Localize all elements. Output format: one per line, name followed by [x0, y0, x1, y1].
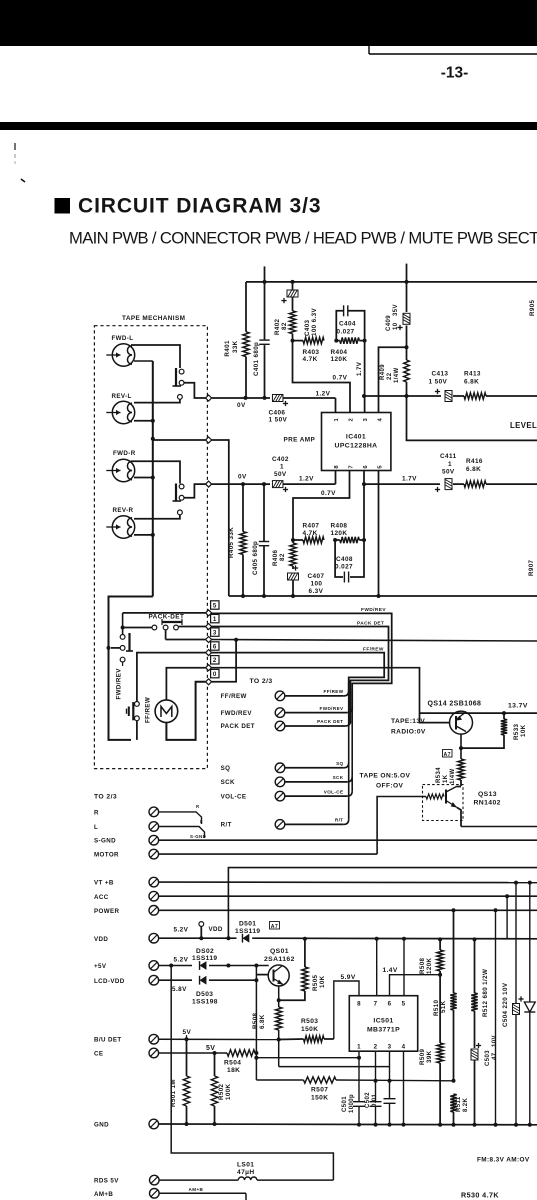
capacitor C403 100 6.3V (electrolytic) — [281, 282, 318, 336]
pin square 6 — [211, 642, 219, 651]
resistor R416 6.8K — [464, 458, 537, 487]
label FWD/REV (vertical) — [116, 668, 123, 700]
connector SQ — [221, 761, 349, 773]
svg-text:50V: 50V — [274, 471, 287, 478]
svg-text:150K: 150K — [301, 1026, 318, 1033]
svg-text:1: 1 — [357, 1044, 361, 1051]
svg-text:FWD-R: FWD-R — [113, 450, 136, 457]
wire node2 to QS14 base — [212, 668, 450, 723]
resistor R401 33K — [224, 282, 249, 398]
svg-text:R406: R406 — [272, 549, 279, 566]
connector VOL-CE — [221, 789, 353, 801]
svg-text:120K: 120K — [426, 957, 433, 974]
label PACK-DET — [149, 614, 185, 621]
svg-text:7: 7 — [349, 465, 355, 469]
svg-text:R/T: R/T — [335, 818, 344, 823]
margin specks — [15, 143, 25, 182]
svg-text:AM+B: AM+B — [94, 1191, 113, 1198]
resistor R413 6.8K — [464, 371, 537, 400]
svg-text:100 6.3V: 100 6.3V — [311, 308, 318, 336]
svg-text:100K: 100K — [225, 1083, 232, 1100]
resistor R510 51K — [433, 910, 457, 1083]
svg-text:R510: R510 — [433, 999, 440, 1016]
svg-text:FF/REW: FF/REW — [145, 697, 152, 723]
label TO 2/3 (left) — [94, 794, 117, 801]
svg-text:4: 4 — [378, 418, 384, 422]
svg-text:LEVEL: LEVEL — [510, 421, 537, 430]
svg-text:6: 6 — [363, 465, 369, 469]
connector FF/REW — [221, 689, 349, 701]
resistor R512 680 1/2W — [471, 939, 489, 1048]
wire 1.2V to pin8 — [299, 471, 336, 485]
wire node3 run — [166, 630, 206, 640]
svg-text:D503: D503 — [196, 991, 213, 998]
connector CE — [94, 1048, 227, 1058]
svg-text:VDD: VDD — [94, 936, 108, 943]
resistor R905 (off-page) — [529, 299, 536, 316]
connector +5V — [94, 957, 192, 971]
svg-text:5: 5 — [402, 1001, 406, 1008]
svg-text:5.8V: 5.8V — [172, 986, 187, 993]
svg-text:8: 8 — [334, 465, 340, 469]
svg-text:R507: R507 — [311, 1087, 328, 1094]
ic IC501 MB3771P — [349, 996, 417, 1051]
switch PACK-DET — [121, 619, 182, 630]
resistor R407 4.7K — [291, 523, 324, 544]
capacitor C411 1 50V (electrolytic) — [435, 453, 464, 492]
wire QS13 base from MOTOR line — [377, 797, 426, 855]
wire R508 to pin3 — [279, 1066, 390, 1068]
svg-text:R508: R508 — [419, 957, 426, 974]
svg-text:VT +B: VT +B — [94, 880, 114, 887]
svg-text:0.027: 0.027 — [337, 329, 355, 336]
svg-text:R413: R413 — [464, 371, 481, 378]
open test point 5.2V VDD — [174, 922, 223, 941]
capacitor C413 1 50V (electrolytic) — [407, 371, 465, 402]
svg-text:R401: R401 — [224, 340, 231, 357]
svg-text:1.2V: 1.2V — [316, 391, 331, 398]
svg-text:R408: R408 — [331, 523, 348, 530]
svg-text:13.7V: 13.7V — [508, 703, 528, 710]
wire 0V input line lower — [212, 474, 270, 487]
switch S1 (FWD-L/REV-L select) — [173, 368, 185, 399]
label 5V (B/U) — [183, 1029, 192, 1039]
resistor R507 150K — [304, 1077, 454, 1102]
pin square 5 — [211, 601, 219, 610]
pin square 3 — [211, 628, 219, 637]
svg-text:SCK: SCK — [333, 775, 344, 780]
svg-text:FF/REW: FF/REW — [323, 689, 343, 694]
svg-text:B/U DET: B/U DET — [94, 1037, 122, 1044]
svg-text:FF/REW: FF/REW — [363, 647, 384, 653]
wire node B to preamp ground — [212, 440, 229, 596]
svg-text:TAPE:13V: TAPE:13V — [391, 718, 425, 725]
svg-text:QS01: QS01 — [270, 948, 289, 955]
svg-text:6.3V: 6.3V — [309, 588, 324, 595]
wire FF/REW to bottom — [136, 721, 138, 740]
svg-text:FM:8.3V AM:OV: FM:8.3V AM:OV — [477, 1157, 530, 1164]
node C (dashed-edge node, right ch) — [206, 481, 212, 487]
svg-text:R403: R403 — [303, 349, 320, 356]
svg-text:OFF:OV: OFF:OV — [376, 783, 404, 790]
svg-text:0.7V: 0.7V — [333, 375, 348, 382]
resistor R534 1K 1/4W — [436, 759, 464, 786]
resistor R402 82 — [274, 297, 296, 341]
svg-text:5.2V: 5.2V — [174, 927, 189, 934]
wire 0V input line upper — [212, 396, 270, 409]
wire LEVEL line — [407, 396, 537, 440]
connector R/T — [221, 818, 349, 830]
svg-text:L: L — [94, 824, 98, 831]
wire head common vertical — [134, 361, 155, 597]
svg-text:GND: GND — [94, 1122, 109, 1129]
resistor R404 120K — [331, 337, 367, 363]
svg-text:6.8K: 6.8K — [464, 379, 479, 386]
svg-text:TO 2/3: TO 2/3 — [94, 794, 117, 801]
resistor R907 (off-page) — [528, 559, 535, 576]
wire node3 long run (FWD/REV bus) — [212, 638, 537, 642]
svg-text:R502: R502 — [218, 1083, 225, 1100]
second black divider band — [0, 122, 537, 130]
svg-text:3: 3 — [213, 629, 217, 636]
connector L — [94, 819, 205, 838]
dashed net spine (right edge of tape mech) — [208, 326, 210, 769]
svg-text:0: 0 — [213, 671, 217, 678]
svg-text:82: 82 — [279, 553, 286, 561]
node 0 — [206, 679, 212, 685]
capacitor C502 0.01 — [365, 1092, 382, 1124]
svg-text:POWER: POWER — [94, 908, 120, 915]
svg-text:RDS 5V: RDS 5V — [94, 1178, 119, 1185]
connector POWER — [94, 906, 537, 916]
svg-text:5: 5 — [213, 602, 217, 609]
node 5 — [206, 610, 212, 616]
svg-text:6.8K: 6.8K — [466, 466, 481, 473]
boxed label A7 (D501) — [270, 922, 280, 930]
svg-text:82: 82 — [281, 322, 288, 330]
resistor R501 1M — [170, 1039, 190, 1124]
svg-text:R534: R534 — [436, 767, 442, 783]
svg-text:SQ: SQ — [221, 765, 231, 772]
svg-text:5: 5 — [378, 465, 384, 469]
resistor R408 120K — [331, 523, 367, 544]
bus vertical (connector bundle a) — [348, 682, 350, 819]
capacitor C404 0.027 — [336, 305, 364, 340]
capacitor C406 1 50V (electrolytic, inline) — [269, 395, 336, 424]
svg-text:1.4V: 1.4V — [383, 967, 398, 974]
node A (dashed-edge node, left ch) — [206, 395, 212, 401]
svg-text:C403: C403 — [304, 319, 311, 336]
wire 0.7V to pin2 — [293, 341, 351, 413]
svg-text:R907: R907 — [528, 559, 535, 576]
svg-text:2SA1162: 2SA1162 — [264, 956, 295, 963]
wire V+ to pin4 — [379, 345, 409, 412]
wire R507 feed line — [256, 1079, 303, 1081]
wire motor bottom to node0 — [166, 682, 205, 740]
svg-text:R905: R905 — [529, 299, 536, 316]
svg-text:1 50V: 1 50V — [429, 379, 448, 386]
label FF/REW (vertical) — [145, 697, 152, 723]
svg-text:0V: 0V — [237, 402, 246, 409]
wire LCD-VDD riser / CE pull — [254, 966, 268, 1081]
wire node1 run — [179, 626, 206, 628]
label 5V (CE) — [206, 1045, 215, 1053]
diode D502 1SS119 — [192, 948, 269, 970]
svg-text:A7: A7 — [443, 752, 450, 758]
wire pin2 drop — [375, 1051, 377, 1101]
connector AM+B — [94, 1187, 246, 1200]
wire head common down-left — [107, 597, 153, 740]
svg-text:R: R — [94, 809, 99, 816]
svg-text:47µH: 47µH — [237, 1169, 255, 1176]
wire pin6 1.4V stub — [383, 967, 441, 996]
svg-text:5V: 5V — [183, 1029, 192, 1036]
svg-text:R509: R509 — [419, 1048, 426, 1065]
svg-text:4.7K: 4.7K — [303, 530, 318, 537]
resistor R409 22 1/4W — [380, 347, 409, 396]
wire 1.2V to pin1 — [316, 391, 336, 413]
svg-text:1: 1 — [448, 461, 452, 468]
svg-text:C405 680p: C405 680p — [252, 541, 259, 575]
svg-text:120K: 120K — [331, 530, 348, 537]
label TAPE:13V / RADIO:0V — [391, 718, 426, 736]
capacitor C402 1 50V (electrolytic, inline) — [272, 456, 336, 492]
svg-text:4: 4 — [402, 1044, 406, 1051]
pin square 0 — [211, 669, 219, 678]
node 1 — [206, 624, 212, 630]
svg-text:51K: 51K — [440, 1000, 447, 1013]
stub above bus (C401) — [264, 266, 266, 282]
svg-text:FWD/REV: FWD/REV — [361, 607, 386, 613]
wire +B rail (mid) — [228, 868, 537, 939]
tape head FWD-R — [106, 450, 135, 482]
svg-text:LS01: LS01 — [237, 1162, 254, 1169]
svg-text:FWD/REV: FWD/REV — [320, 706, 345, 711]
diode D501 1SS119 — [226, 921, 537, 943]
svg-text:1 50V: 1 50V — [269, 417, 288, 424]
wire top supply bus — [246, 280, 537, 284]
svg-text:2: 2 — [349, 418, 355, 422]
wire QS14 collector — [459, 734, 463, 759]
svg-text:CE: CE — [94, 1051, 103, 1058]
wire node0 to node3 bus — [212, 640, 237, 682]
svg-text:+5V: +5V — [94, 963, 107, 970]
svg-text:R530 4.7K: R530 4.7K — [461, 1191, 499, 1200]
wire REV-R to S2 contact — [134, 515, 180, 519]
svg-text:R: R — [196, 804, 199, 809]
svg-text:VDD: VDD — [209, 926, 223, 933]
svg-text:RN1402: RN1402 — [474, 800, 501, 807]
stub above bus (C409) — [406, 264, 408, 282]
svg-text:TAPE MECHANISM: TAPE MECHANISM — [122, 315, 185, 322]
svg-text:VOL-CE: VOL-CE — [324, 789, 344, 794]
svg-text:-13-: -13- — [441, 65, 469, 82]
svg-text:C409: C409 — [386, 315, 392, 331]
svg-text:150K: 150K — [311, 1095, 328, 1102]
connector RDS 5V — [94, 1175, 238, 1185]
svg-text:RADIO:0V: RADIO:0V — [391, 729, 426, 736]
svg-text:S-GND: S-GND — [94, 838, 116, 845]
svg-text:SCK: SCK — [221, 779, 235, 786]
svg-text:MB3771P: MB3771P — [367, 1027, 400, 1034]
connector VT +B — [94, 877, 537, 887]
top black header band — [0, 0, 537, 54]
switch S2 (FWD-R/REV-R select) — [173, 484, 185, 515]
resistor R533 10K — [461, 713, 527, 748]
connector MOTOR — [94, 849, 377, 859]
svg-text:R404: R404 — [331, 349, 348, 356]
connector VDD — [94, 933, 237, 943]
svg-text:0.7V: 0.7V — [321, 490, 336, 497]
node B (bias node) — [206, 437, 212, 443]
svg-text:3: 3 — [388, 1044, 392, 1051]
svg-text:39K: 39K — [426, 1050, 433, 1063]
wire FWD-L to switch S1 — [131, 345, 180, 368]
svg-text:PACK DET: PACK DET — [357, 621, 384, 627]
svg-text:1K: 1K — [443, 774, 449, 783]
svg-text:1SS119: 1SS119 — [235, 928, 261, 935]
connector ACC — [94, 891, 537, 901]
svg-text:6.8K: 6.8K — [259, 1014, 266, 1029]
wire R409 node to pin3 net — [362, 394, 409, 398]
svg-text:C503: C503 — [485, 1050, 491, 1066]
svg-text:C401 680p: C401 680p — [253, 342, 260, 376]
svg-text:100: 100 — [311, 581, 323, 588]
wire pin5 VDD drop — [403, 939, 405, 996]
node 2 — [206, 665, 212, 671]
pin square 1 — [211, 614, 219, 623]
svg-text:35V: 35V — [393, 304, 399, 316]
svg-text:R504: R504 — [224, 1060, 241, 1067]
label FM:8.3V AM:0V — [477, 1157, 530, 1164]
svg-text:QS14 2SB1068: QS14 2SB1068 — [428, 701, 482, 708]
svg-text:0.01: 0.01 — [372, 1093, 378, 1107]
connector LCD-VDD — [94, 975, 192, 993]
wire S1 output to node A — [184, 383, 206, 398]
svg-text:REV-R: REV-R — [113, 507, 134, 514]
wire pin5 to ground bus — [378, 471, 380, 597]
wire REV-L to S1 contact — [134, 399, 180, 402]
svg-text:4.7K: 4.7K — [303, 356, 318, 363]
resistor R403 4.7K — [291, 337, 325, 363]
capacitor C503 47 10V (electrolytic) — [471, 1035, 498, 1124]
wire S2 output to node C — [184, 484, 206, 498]
resistor R511 8.2K — [450, 1094, 469, 1124]
capacitor C501 1000p — [342, 1094, 365, 1124]
svg-text:SQ: SQ — [336, 761, 343, 766]
svg-text:PACK DET: PACK DET — [221, 723, 255, 730]
svg-text:7: 7 — [374, 1001, 378, 1008]
svg-text:REV-L: REV-L — [112, 393, 132, 400]
wire pin1 drop — [357, 1051, 361, 1101]
inductor LS01 47uH — [237, 1162, 333, 1181]
svg-text:TO 2/3: TO 2/3 — [250, 678, 273, 685]
svg-text:IC401: IC401 — [346, 434, 366, 441]
svg-text:R533: R533 — [513, 723, 520, 740]
wire preamp ground bus — [229, 594, 537, 598]
svg-text:R503: R503 — [301, 1018, 318, 1025]
wire QS14 emitter rail 13.7V — [420, 703, 537, 716]
wire pin7 VDD drop — [376, 939, 378, 996]
resistor R508 6.8K — [252, 1007, 282, 1067]
tape head REV-L — [106, 393, 134, 424]
wire FWD-R to switch S2 — [131, 461, 180, 483]
svg-text:C501: C501 — [342, 1096, 348, 1112]
svg-text:120K: 120K — [331, 356, 348, 363]
svg-text:5.2V: 5.2V — [174, 957, 189, 964]
resistor R504 18K — [224, 1050, 256, 1074]
label TAPE ON:5.0V / OFF:0V — [360, 773, 411, 790]
svg-text:3: 3 — [363, 418, 369, 422]
svg-text:2: 2 — [213, 657, 217, 664]
svg-text:CIRCUIT DIAGRAM 3/3: CIRCUIT DIAGRAM 3/3 — [78, 195, 321, 218]
svg-text:18K: 18K — [227, 1067, 240, 1074]
svg-text:LCD-VDD: LCD-VDD — [94, 978, 125, 985]
svg-text:MAIN PWB / CONNECTOR PWB / HEA: MAIN PWB / CONNECTOR PWB / HEAD PWB / MU… — [69, 229, 537, 248]
connector FWD/REV — [221, 706, 353, 718]
wire pin6 to 1.7V line — [362, 471, 440, 541]
svg-text:PACK DET: PACK DET — [317, 719, 343, 724]
op-amp IC401 UPC1228HA (pre amp) — [322, 413, 391, 471]
diode D503 1SS198 — [192, 976, 256, 1006]
node 6 — [206, 650, 212, 656]
transistor QS01 2SA1162 — [264, 948, 295, 986]
svg-text:R409: R409 — [380, 364, 386, 380]
svg-text:FWD/REV: FWD/REV — [116, 668, 123, 700]
svg-text:10K: 10K — [319, 975, 326, 988]
svg-text:C402: C402 — [272, 456, 289, 463]
svg-text:FWD-L: FWD-L — [112, 335, 134, 342]
svg-text:1: 1 — [213, 616, 217, 623]
wire 1.7V pin3 — [356, 341, 365, 413]
label PRE AMP — [284, 437, 316, 444]
wire node2 to motor — [166, 668, 205, 700]
svg-text:R405 33K: R405 33K — [228, 527, 235, 558]
svg-text:1.7V: 1.7V — [402, 476, 417, 483]
svg-text:UPC1228HA: UPC1228HA — [335, 443, 378, 450]
svg-text:2: 2 — [374, 1044, 378, 1051]
transistor QS13 RN1402 (dashed pkg, w/ base resistor) — [423, 785, 501, 827]
svg-text:10K: 10K — [520, 724, 527, 737]
svg-text:R402: R402 — [274, 318, 281, 335]
capacitor C407 100 6.3V (electrolytic) — [288, 565, 325, 596]
svg-text:VOL-CE: VOL-CE — [221, 793, 247, 800]
wire ACC to VDD drop — [506, 896, 508, 939]
svg-text:S-GND: S-GND — [190, 834, 206, 839]
svg-text:R511: R511 — [456, 1096, 462, 1112]
svg-text:8: 8 — [357, 1001, 361, 1008]
svg-text:1.7V: 1.7V — [356, 361, 363, 376]
wire pin3 drop — [389, 1051, 391, 1098]
svg-text:1000p: 1000p — [349, 1094, 355, 1113]
capacitor C504 220 10V (electrolytic) — [502, 883, 524, 1124]
tape head REV-R — [106, 507, 134, 538]
svg-text:R407: R407 — [303, 523, 320, 530]
svg-text:1SS198: 1SS198 — [192, 998, 218, 1005]
subtitle — [69, 229, 537, 248]
page number -13- — [441, 65, 469, 82]
wire pin7 0.7V run — [293, 471, 350, 541]
wire node5 FWD/REV descent — [212, 607, 392, 710]
svg-text:50V: 50V — [442, 469, 455, 476]
svg-text:C413: C413 — [432, 371, 449, 378]
wire +5V riser to LS01 frame — [171, 966, 333, 1181]
boxed label A7 (R534) — [443, 750, 453, 758]
svg-text:PACK-DET: PACK-DET — [149, 614, 185, 621]
svg-text:IC501: IC501 — [373, 1018, 393, 1025]
tape head FWD-L — [106, 335, 134, 366]
svg-text:C407: C407 — [308, 573, 325, 580]
